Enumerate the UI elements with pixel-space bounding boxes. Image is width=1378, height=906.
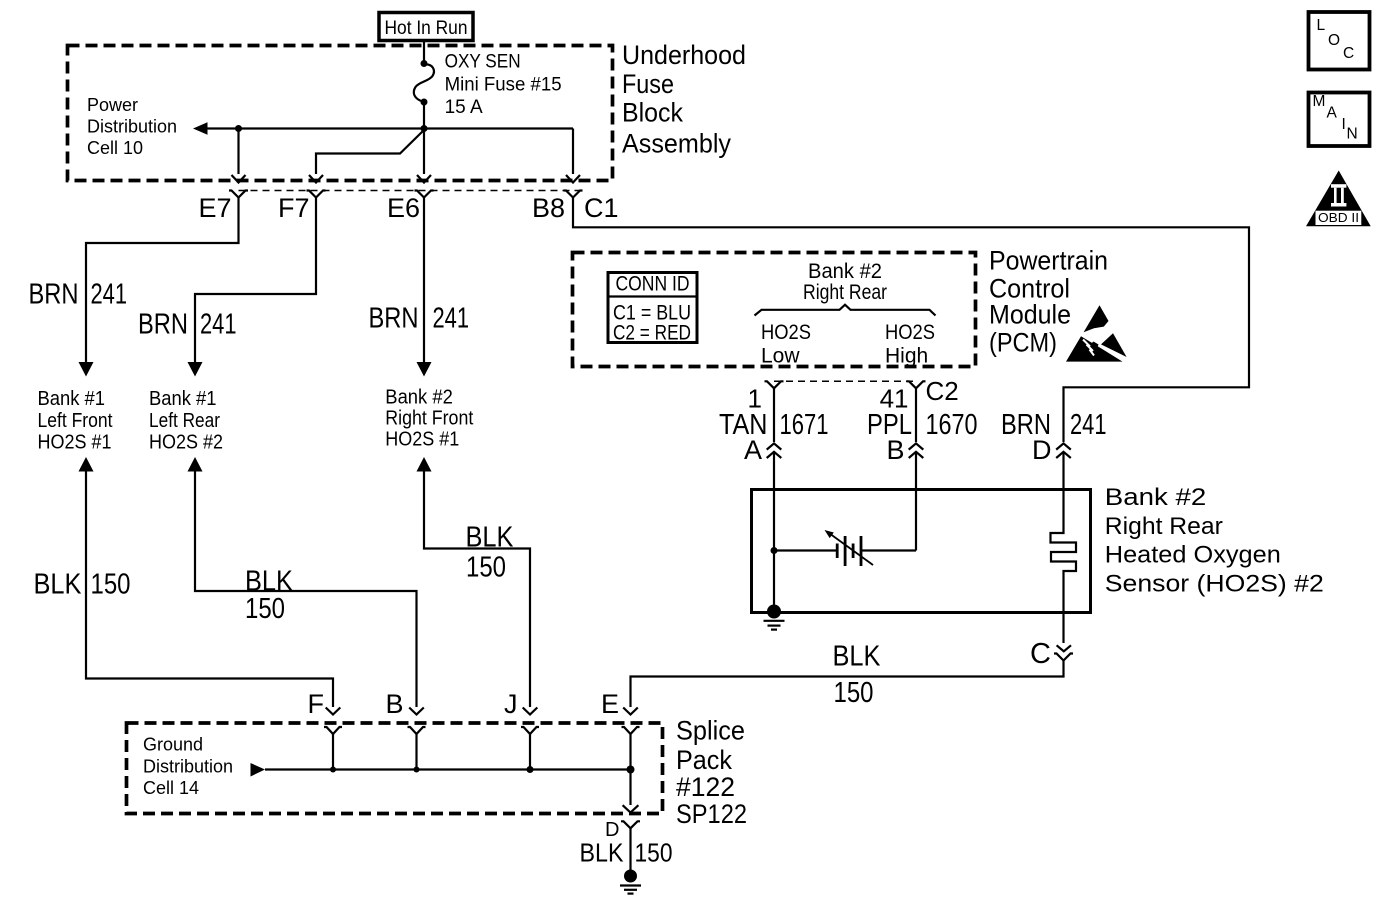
svg-text:Bank #2: Bank #2 bbox=[385, 386, 453, 408]
svg-text:Module: Module bbox=[989, 299, 1071, 329]
label Bank #1 Left Front HO2S #1 bbox=[38, 388, 113, 454]
arrow into splice B bbox=[409, 708, 424, 715]
svg-text:B: B bbox=[385, 689, 403, 719]
wire C to splice E bbox=[631, 661, 1064, 708]
connector C bbox=[1054, 654, 1073, 661]
HO2S sensor box bbox=[752, 490, 1091, 613]
svg-text:HO2S #1: HO2S #1 bbox=[38, 432, 112, 454]
arrow up from Bank2 RF ground lead bbox=[417, 457, 432, 472]
wire Bank1 LF to splice F bbox=[86, 471, 333, 707]
ESD sensitivity icon bbox=[1066, 305, 1127, 361]
PCM dashed box bbox=[573, 253, 976, 367]
svg-text:C2: C2 bbox=[926, 376, 959, 406]
svg-text:BLK: BLK bbox=[580, 838, 625, 868]
svg-text:BLK: BLK bbox=[833, 641, 882, 673]
sensor case ground node bbox=[767, 605, 781, 619]
wire from Hot In Run to fuse bbox=[423, 41, 425, 64]
svg-text:O: O bbox=[1328, 32, 1340, 49]
svg-text:150: 150 bbox=[635, 838, 673, 868]
svg-text:C2 = RED: C2 = RED bbox=[613, 322, 691, 345]
svg-text:SP122: SP122 bbox=[676, 799, 747, 829]
Underhood Fuse Block Assembly dashed box bbox=[68, 46, 613, 181]
junction node F bbox=[330, 767, 336, 773]
label Bank #2 Right Rear Heated Oxygen Sensor (HO2S) #2 bbox=[1105, 484, 1324, 597]
svg-text:Right Rear: Right Rear bbox=[1105, 513, 1223, 540]
svg-text:#122: #122 bbox=[676, 772, 735, 802]
CONN ID legend box bbox=[608, 272, 697, 344]
svg-text:150: 150 bbox=[245, 593, 285, 625]
svg-text:B8: B8 bbox=[532, 193, 565, 223]
svg-text:241: 241 bbox=[200, 309, 237, 341]
wire A inside sensor bbox=[773, 490, 775, 613]
LOC icon bbox=[1309, 12, 1370, 70]
wire F7 drop (diagonal) bbox=[316, 130, 424, 174]
arrow E6 bbox=[417, 175, 431, 183]
svg-text:BRN: BRN bbox=[138, 309, 188, 341]
connector E7 bbox=[229, 191, 248, 198]
svg-text:Bank #2: Bank #2 bbox=[1105, 484, 1207, 511]
svg-text:Assembly: Assembly bbox=[622, 129, 732, 159]
MAIN icon bbox=[1309, 93, 1370, 147]
arrow into splice E bbox=[623, 708, 638, 715]
svg-text:B: B bbox=[886, 435, 904, 465]
svg-text:Left Front: Left Front bbox=[38, 410, 113, 432]
wire Bank1 LR to splice B bbox=[195, 471, 417, 707]
arrow E7 bbox=[232, 175, 246, 183]
svg-text:High: High bbox=[885, 344, 928, 367]
OBD II icon bbox=[1306, 171, 1371, 227]
svg-text:OXY SEN: OXY SEN bbox=[445, 51, 521, 72]
svg-text:BLK: BLK bbox=[34, 569, 83, 601]
svg-text:J: J bbox=[504, 689, 518, 719]
svg-text:Block: Block bbox=[622, 97, 684, 127]
connector pin 1 (C2) bbox=[765, 381, 784, 388]
svg-text:Right Rear: Right Rear bbox=[803, 281, 887, 304]
svg-text:A: A bbox=[1327, 105, 1338, 122]
svg-text:HO2S: HO2S bbox=[885, 321, 935, 344]
svg-text:F7: F7 bbox=[278, 193, 310, 223]
svg-text:F: F bbox=[308, 689, 325, 719]
arrow B8 bbox=[566, 175, 580, 183]
wire F stem bbox=[332, 734, 334, 770]
svg-text:OBD II: OBD II bbox=[1318, 210, 1359, 225]
svg-text:HO2S: HO2S bbox=[761, 321, 811, 344]
arrow into C bbox=[1057, 645, 1071, 651]
svg-text:Fuse: Fuse bbox=[622, 69, 674, 99]
arrow to Power Distribution Cell 10 bbox=[193, 122, 208, 134]
connector D (chevrons) bbox=[1056, 443, 1071, 489]
wire E7 to HO2S #1 bbox=[86, 198, 239, 364]
svg-text:Low: Low bbox=[761, 344, 800, 367]
arrow down to Bank1 LF bbox=[79, 362, 94, 377]
svg-text:N: N bbox=[1347, 126, 1358, 143]
svg-text:E: E bbox=[601, 689, 619, 719]
wire to sensing cell bbox=[774, 549, 837, 551]
label Powertrain Control Module (PCM) bbox=[989, 246, 1108, 358]
junction node sensor cell bbox=[771, 547, 778, 554]
connector E6 bbox=[415, 191, 434, 198]
ground G122 bbox=[620, 870, 641, 894]
connector J bbox=[521, 727, 539, 734]
svg-text:15 A: 15 A bbox=[445, 97, 483, 118]
junction node at fuse output bbox=[421, 125, 428, 132]
fuse F15 OXY SEN bbox=[414, 60, 434, 106]
svg-text:Bank #1: Bank #1 bbox=[38, 388, 106, 410]
svg-text:150: 150 bbox=[91, 569, 131, 601]
connector D bbox=[621, 821, 640, 828]
wire fuse to junction bbox=[423, 102, 425, 129]
svg-text:BLK: BLK bbox=[466, 522, 515, 554]
arrow out of splice D bbox=[623, 805, 639, 812]
wire horizontal feed bbox=[206, 127, 573, 129]
svg-text:BRN: BRN bbox=[29, 279, 79, 311]
junction node J bbox=[527, 766, 534, 773]
svg-text:C: C bbox=[1343, 45, 1354, 62]
connector B8 bbox=[564, 191, 583, 198]
svg-text:Splice: Splice bbox=[676, 716, 745, 746]
connector B bbox=[408, 727, 426, 734]
svg-text:C1: C1 bbox=[584, 193, 619, 223]
svg-text:Power: Power bbox=[87, 95, 138, 115]
label Bank #1 Left Rear HO2S #2 bbox=[149, 388, 223, 454]
svg-text:Sensor (HO2S) #2: Sensor (HO2S) #2 bbox=[1105, 570, 1324, 597]
wire F7 to HO2S #2 bbox=[195, 198, 316, 364]
svg-text:241: 241 bbox=[433, 303, 470, 335]
wire E6 to Bank2 RF bbox=[423, 198, 425, 364]
wire heater to C bbox=[1062, 613, 1064, 644]
connector pin 41 (C2) bbox=[907, 381, 926, 388]
svg-text:Powertrain: Powertrain bbox=[989, 246, 1108, 276]
arrow into splice F bbox=[326, 708, 341, 715]
svg-text:241: 241 bbox=[1070, 409, 1107, 441]
wire Bank2 RF to splice J bbox=[424, 471, 530, 707]
connector C2 face (thin dashed) bbox=[774, 380, 916, 382]
svg-text:M: M bbox=[1313, 93, 1326, 110]
Hot In Run power tag bbox=[379, 13, 473, 41]
brace over HO2S pins bbox=[755, 305, 936, 316]
splice bus bbox=[265, 768, 631, 770]
svg-text:HO2S #1: HO2S #1 bbox=[385, 429, 459, 451]
svg-text:I: I bbox=[1342, 116, 1346, 133]
junction node E corner bbox=[627, 766, 635, 774]
svg-text:Heated Oxygen: Heated Oxygen bbox=[1105, 542, 1281, 569]
wire cell to B bbox=[861, 549, 916, 551]
arrow up from Bank1 LR ground lead bbox=[188, 457, 203, 472]
connector A (chevrons) bbox=[767, 443, 782, 489]
label: Power Distribution Cell 10 bbox=[87, 95, 177, 158]
svg-text:241: 241 bbox=[91, 279, 128, 311]
wire bus to D out bbox=[629, 770, 631, 806]
label Ground Distribution Cell 14 bbox=[143, 735, 233, 799]
svg-text:1670: 1670 bbox=[926, 409, 978, 441]
svg-text:Bank #1: Bank #1 bbox=[149, 388, 217, 410]
wire E6 drop bbox=[423, 129, 425, 175]
oxygen sensing cell (variable voltage) bbox=[825, 530, 874, 566]
connector C1 face (thin dashed) bbox=[239, 190, 581, 192]
svg-text:150: 150 bbox=[466, 552, 506, 584]
connector E bbox=[622, 727, 640, 734]
label: Underhood Fuse Block Assembly bbox=[622, 40, 746, 159]
svg-text:Cell 14: Cell 14 bbox=[143, 778, 199, 798]
wire pin1 to sensor A bbox=[773, 388, 775, 442]
label: OXY SEN Mini Fuse #15 15 A bbox=[445, 51, 562, 118]
wire B8/C1 to PCM D bbox=[573, 198, 1249, 443]
arrow up from Bank1 LF ground lead bbox=[79, 457, 94, 472]
svg-text:(PCM): (PCM) bbox=[989, 327, 1057, 357]
svg-text:Ground: Ground bbox=[143, 735, 203, 755]
connector F bbox=[324, 727, 342, 734]
svg-text:150: 150 bbox=[834, 677, 874, 709]
heater element bbox=[1051, 490, 1077, 613]
wire B inside sensor bbox=[915, 490, 917, 551]
svg-text:Distribution: Distribution bbox=[87, 117, 177, 137]
arrow down to Bank2 RF bbox=[417, 362, 432, 377]
svg-text:Mini Fuse #15: Mini Fuse #15 bbox=[445, 74, 562, 95]
svg-text:C: C bbox=[1030, 638, 1051, 670]
svg-text:Distribution: Distribution bbox=[143, 757, 233, 777]
svg-text:E7: E7 bbox=[198, 193, 231, 223]
svg-text:Pack: Pack bbox=[676, 745, 733, 775]
svg-text:Left Rear: Left Rear bbox=[149, 410, 220, 432]
connector F7 bbox=[307, 191, 326, 198]
svg-text:Hot In Run: Hot In Run bbox=[385, 17, 468, 39]
wire E7 drop bbox=[237, 129, 239, 175]
svg-text:D: D bbox=[1032, 435, 1052, 465]
label Bank #2 Right Front HO2S #1 bbox=[385, 386, 473, 450]
splice bus arrow to Ground Distribution bbox=[251, 763, 266, 777]
svg-text:Cell 10: Cell 10 bbox=[87, 138, 143, 158]
svg-text:Bank #2: Bank #2 bbox=[808, 260, 882, 283]
label Splice Pack #122 SP122 bbox=[676, 716, 747, 830]
wire J stem bbox=[529, 734, 531, 770]
wire D to ground bbox=[629, 828, 631, 870]
svg-text:L: L bbox=[1317, 17, 1326, 34]
connector B (chevrons) bbox=[909, 443, 924, 489]
arrow down to Bank1 LR bbox=[188, 362, 203, 377]
svg-text:1671: 1671 bbox=[780, 409, 829, 441]
arrow into splice J bbox=[523, 708, 538, 715]
wire E stem bbox=[629, 734, 631, 770]
svg-text:Underhood: Underhood bbox=[622, 40, 746, 70]
svg-text:BRN: BRN bbox=[369, 303, 419, 335]
svg-text:CONN ID: CONN ID bbox=[616, 272, 690, 295]
wire pin41 to sensor B bbox=[915, 388, 917, 442]
wire B8 drop bbox=[572, 129, 574, 175]
svg-text:Right Front: Right Front bbox=[385, 407, 473, 429]
arrow F7 bbox=[309, 175, 323, 183]
svg-text:A: A bbox=[744, 435, 762, 465]
svg-text:E6: E6 bbox=[387, 193, 420, 223]
Splice Pack dashed box bbox=[127, 723, 663, 814]
wire B stem bbox=[415, 734, 417, 770]
junction node B bbox=[414, 767, 420, 773]
sensor case ground symbol bbox=[764, 621, 785, 630]
junction node E7 tap bbox=[235, 125, 242, 132]
svg-text:HO2S #2: HO2S #2 bbox=[149, 432, 223, 454]
